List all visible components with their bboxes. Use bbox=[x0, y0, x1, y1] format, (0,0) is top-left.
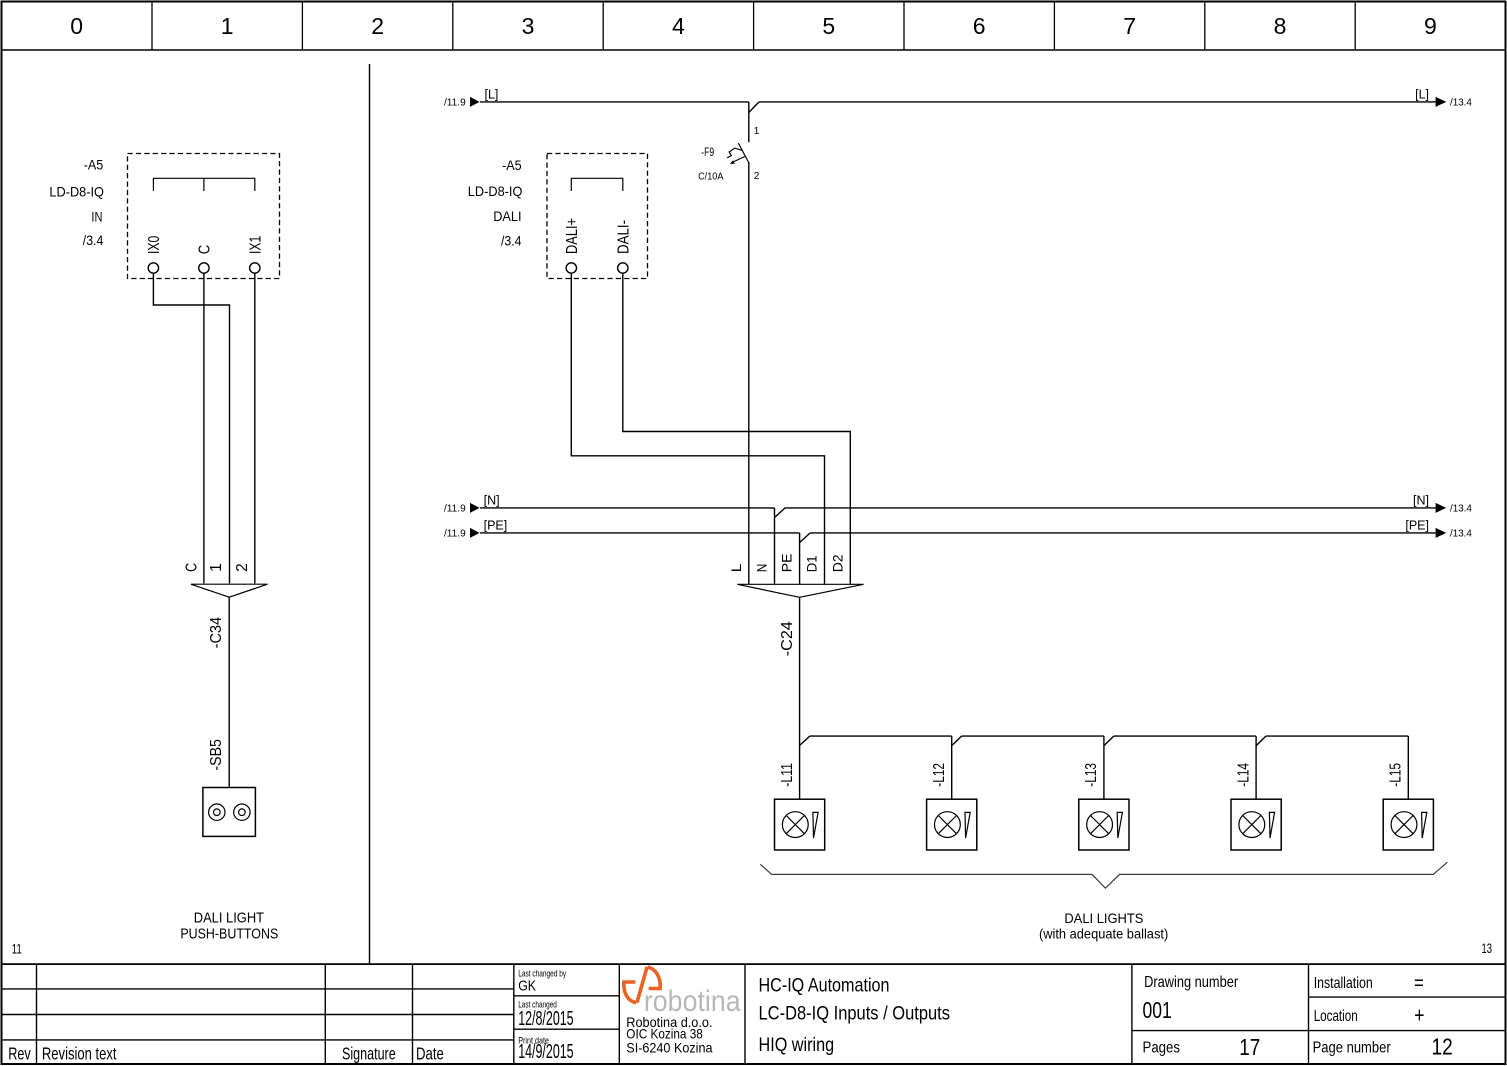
net PE outgoing arrow bbox=[1436, 528, 1447, 538]
svg-text:Revision text: Revision text bbox=[42, 1044, 117, 1064]
push-button SB5 right button bbox=[234, 804, 250, 820]
push-button SB5 box bbox=[203, 788, 256, 837]
caption DALI LIGHT PUSH-BUTTONS bbox=[180, 911, 278, 943]
wire net PE bus bbox=[480, 533, 1436, 543]
lamp L13 bbox=[1079, 799, 1129, 850]
svg-text:7: 7 bbox=[1123, 13, 1136, 39]
wire branch to lamp L15 bbox=[1407, 736, 1409, 799]
svg-text:3: 3 bbox=[522, 13, 535, 39]
svg-text:N: N bbox=[754, 564, 770, 573]
device block U-A5-DALI dashed outline bbox=[547, 154, 648, 279]
wire net L bus bbox=[480, 102, 1436, 113]
svg-text:SI-6240 Kozina: SI-6240 Kozina bbox=[626, 1039, 712, 1055]
svg-text:DALI-: DALI- bbox=[615, 220, 632, 254]
svg-text:C: C bbox=[183, 563, 200, 572]
svg-text:D2: D2 bbox=[829, 554, 845, 572]
svg-text:12/8/2015: 12/8/2015 bbox=[518, 1007, 573, 1030]
svg-text:/11.9: /11.9 bbox=[444, 527, 466, 539]
wire DALI+ to connector pin D1 bbox=[571, 273, 824, 584]
svg-text:PE: PE bbox=[779, 554, 795, 573]
svg-text:9: 9 bbox=[1424, 13, 1437, 39]
breaker F9 blade bbox=[738, 143, 749, 163]
svg-text:DALI LIGHT: DALI LIGHT bbox=[194, 911, 264, 927]
svg-text:PUSH-BUTTONS: PUSH-BUTTONS bbox=[180, 927, 278, 943]
svg-text:/3.4: /3.4 bbox=[83, 232, 104, 248]
caption DALI LIGHTS (with adequate ballast) bbox=[1039, 910, 1168, 942]
svg-text:/13.4: /13.4 bbox=[1450, 503, 1472, 515]
svg-text:5: 5 bbox=[822, 13, 835, 39]
section separator line bbox=[369, 64, 371, 964]
svg-text:=: = bbox=[1414, 973, 1424, 995]
svg-text:Rev: Rev bbox=[8, 1044, 31, 1064]
svg-text:-L12: -L12 bbox=[931, 763, 948, 787]
svg-text:1: 1 bbox=[208, 563, 225, 572]
lamp L15 bbox=[1383, 799, 1433, 850]
svg-text:/11.9: /11.9 bbox=[444, 502, 466, 514]
wire net N branch to connector pin N bbox=[774, 508, 776, 584]
svg-text:(with adequate ballast): (with adequate ballast) bbox=[1039, 926, 1168, 942]
column ruler numbers bbox=[70, 13, 1436, 39]
wire IX1 to connector pin 2 bbox=[254, 273, 256, 583]
svg-text:-L11: -L11 bbox=[779, 763, 796, 787]
svg-text:D1: D1 bbox=[804, 555, 820, 572]
svg-text:6: 6 bbox=[973, 13, 986, 39]
svg-text:8: 8 bbox=[1274, 13, 1287, 39]
svg-text:[PE]: [PE] bbox=[1405, 519, 1429, 533]
svg-text:/13.4: /13.4 bbox=[1450, 528, 1472, 540]
svg-text:+: + bbox=[1414, 1003, 1424, 1028]
svg-text:2: 2 bbox=[234, 563, 251, 572]
push-button SB5 left button bbox=[209, 804, 225, 820]
wire net N bus bbox=[480, 508, 1436, 518]
svg-text:11: 11 bbox=[12, 941, 22, 957]
svg-text:Page number: Page number bbox=[1313, 1040, 1392, 1057]
svg-text:L: L bbox=[728, 563, 744, 572]
wire net PE branch to connector pin PE bbox=[799, 533, 801, 584]
connector C34 chevron symbol bbox=[191, 584, 268, 597]
svg-text:LD-D8-IQ: LD-D8-IQ bbox=[468, 183, 523, 199]
svg-text:HC-IQ Automation: HC-IQ Automation bbox=[759, 975, 890, 997]
svg-text:LD-D8-IQ: LD-D8-IQ bbox=[49, 183, 104, 199]
net L incoming arrow bbox=[470, 97, 480, 107]
device A5 IN internal bracket bbox=[153, 178, 254, 191]
wire breaker F9 to connector pin L bbox=[748, 162, 750, 584]
device A5 DALI internal bracket bbox=[571, 178, 623, 191]
breaker F9 latch hook bbox=[727, 148, 742, 158]
wire DALI- to connector pin D2 bbox=[623, 273, 851, 584]
svg-text:[PE]: [PE] bbox=[484, 519, 508, 533]
column ruler bottom line bbox=[2, 49, 1506, 51]
svg-text:2: 2 bbox=[371, 13, 384, 39]
pin IX1 terminal circle bbox=[250, 263, 260, 273]
svg-text:C/10A: C/10A bbox=[698, 172, 724, 183]
svg-text:1: 1 bbox=[754, 126, 760, 137]
wire C to connector pin C bbox=[203, 273, 205, 583]
wire branch to lamp L14 bbox=[1255, 736, 1257, 799]
pin C terminal circle bbox=[199, 263, 209, 273]
svg-text:Pages: Pages bbox=[1143, 1040, 1181, 1057]
svg-text:0: 0 bbox=[70, 13, 83, 39]
svg-text:LC-D8-IQ Inputs / Outputs: LC-D8-IQ Inputs / Outputs bbox=[759, 1002, 951, 1024]
svg-text:IX1: IX1 bbox=[247, 236, 264, 254]
svg-text:-A5: -A5 bbox=[502, 157, 522, 173]
svg-text:IX0: IX0 bbox=[146, 235, 163, 254]
svg-text:Drawing number: Drawing number bbox=[1144, 974, 1239, 991]
svg-text:-F9: -F9 bbox=[701, 147, 714, 159]
svg-text:-C34: -C34 bbox=[208, 617, 225, 649]
svg-text:-L14: -L14 bbox=[1235, 763, 1252, 787]
svg-text:/13.4: /13.4 bbox=[1450, 97, 1472, 109]
wire cable C24 down to lamp L11 bbox=[799, 597, 801, 799]
wire lamp distribution bus with branch jogs bbox=[800, 736, 1409, 746]
net N outgoing arrow bbox=[1436, 503, 1447, 513]
svg-text:[L]: [L] bbox=[1415, 88, 1429, 102]
grouping brace under lamps bbox=[760, 862, 1447, 888]
svg-text:/3.4: /3.4 bbox=[501, 233, 522, 249]
net PE incoming arrow bbox=[470, 528, 480, 538]
device block U-A5-IN dashed outline bbox=[128, 154, 280, 279]
net N incoming arrow bbox=[470, 503, 480, 513]
svg-text:Location: Location bbox=[1314, 1008, 1358, 1025]
svg-text:[L]: [L] bbox=[485, 88, 499, 102]
svg-text:IN: IN bbox=[91, 208, 102, 224]
svg-text:Signature: Signature bbox=[342, 1044, 396, 1064]
wire IX0 to connector pin 1 bbox=[153, 273, 229, 583]
svg-text:-A5: -A5 bbox=[84, 157, 104, 173]
svg-text:C: C bbox=[196, 245, 213, 255]
svg-text:-C24: -C24 bbox=[779, 621, 796, 656]
wire branch to lamp L13 bbox=[1103, 736, 1105, 799]
lamp L14 bbox=[1231, 799, 1281, 850]
pin DALI- terminal circle bbox=[618, 263, 628, 273]
svg-text:DALI+: DALI+ bbox=[564, 218, 581, 254]
svg-text:2: 2 bbox=[754, 171, 760, 182]
pin DALI+ terminal circle bbox=[566, 263, 576, 273]
svg-text:12: 12 bbox=[1432, 1034, 1453, 1060]
svg-text:-L15: -L15 bbox=[1388, 763, 1405, 787]
breaker F9 pin 1 wire bbox=[748, 102, 750, 142]
connector C24 chevron symbol bbox=[737, 584, 863, 597]
svg-text:001: 001 bbox=[1143, 997, 1172, 1023]
svg-text:1: 1 bbox=[221, 13, 234, 39]
svg-text:14/9/2015: 14/9/2015 bbox=[518, 1040, 573, 1063]
svg-text:GK: GK bbox=[518, 978, 536, 995]
breaker F9 actuator arrow bbox=[730, 157, 745, 164]
svg-text:[N]: [N] bbox=[484, 494, 500, 508]
logo robotina mark bbox=[624, 967, 660, 1003]
svg-text:DALI LIGHTS: DALI LIGHTS bbox=[1064, 910, 1143, 926]
net L outgoing arrow bbox=[1436, 97, 1447, 107]
svg-text:4: 4 bbox=[672, 13, 685, 39]
svg-text:HIQ wiring: HIQ wiring bbox=[759, 1034, 835, 1056]
svg-text:Installation: Installation bbox=[1314, 975, 1373, 992]
wire cable C34 to push-button SB5 bbox=[228, 597, 230, 787]
svg-text:-L13: -L13 bbox=[1083, 763, 1100, 787]
svg-text:13: 13 bbox=[1482, 940, 1493, 956]
svg-text:17: 17 bbox=[1239, 1034, 1260, 1060]
pin IX0 terminal circle bbox=[148, 263, 158, 273]
svg-text:[N]: [N] bbox=[1413, 494, 1429, 508]
wire branch to lamp L12 bbox=[951, 736, 953, 799]
title block grid bbox=[2, 964, 1506, 1064]
lamp L12 bbox=[927, 799, 977, 850]
column ruler dividers bbox=[152, 2, 1355, 50]
svg-text:DALI: DALI bbox=[493, 208, 521, 224]
svg-text:Date: Date bbox=[416, 1044, 444, 1064]
svg-text:/11.9: /11.9 bbox=[444, 96, 466, 108]
lamp L11 bbox=[775, 799, 825, 850]
svg-text:-SB5: -SB5 bbox=[208, 739, 225, 771]
